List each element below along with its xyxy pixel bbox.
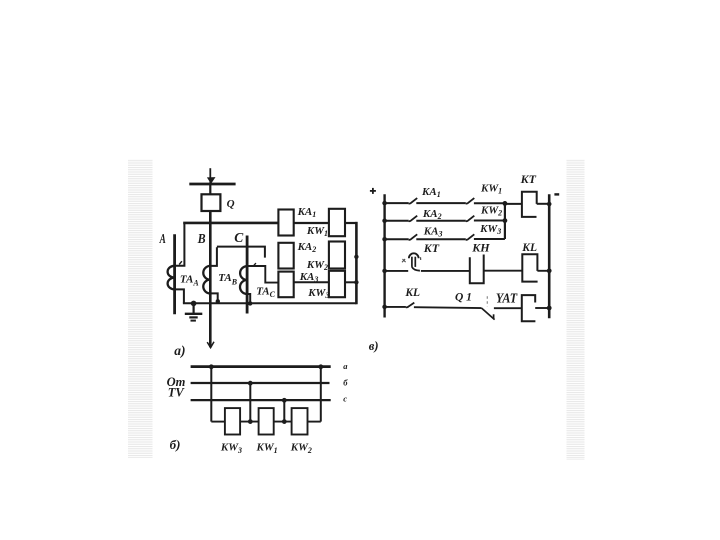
svg-text:A: A — [159, 232, 166, 247]
svg-text:ТV: ТV — [168, 386, 186, 400]
svg-text:б): б) — [170, 437, 181, 452]
svg-text:C: C — [234, 231, 244, 246]
svg-text:KL: KL — [521, 242, 537, 254]
svg-text:а: а — [343, 361, 348, 371]
svg-text:KH: KH — [471, 240, 490, 254]
svg-text:в): в) — [369, 339, 379, 353]
svg-text:б: б — [343, 377, 348, 387]
svg-text:B: B — [197, 232, 206, 247]
svg-text:KT: KT — [520, 172, 537, 186]
svg-text:Q 1: Q 1 — [455, 292, 472, 304]
svg-text:KT: KT — [423, 241, 440, 255]
svg-text:YAT: YAT — [496, 290, 518, 305]
svg-text:KL: KL — [404, 287, 420, 299]
svg-text:с: с — [343, 394, 347, 404]
svg-text:а): а) — [174, 343, 185, 358]
svg-text:Q: Q — [227, 198, 235, 210]
